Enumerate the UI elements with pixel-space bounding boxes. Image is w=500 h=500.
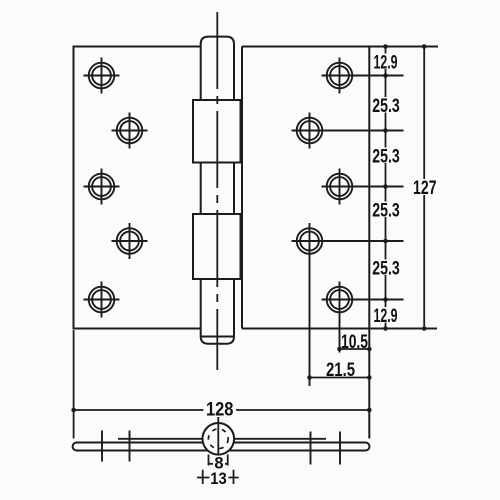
- knuckle K4: [193, 214, 241, 279]
- hole R3: [322, 169, 404, 205]
- 13 dimension line stubs: [197, 477, 239, 479]
- hole R2: [292, 113, 404, 149]
- pin bottom cap arc: [201, 337, 234, 344]
- svg-text:128: 128: [206, 399, 234, 420]
- right leaf right edge: [368, 47, 370, 329]
- bottom view screw position tick R2: [310, 432, 312, 465]
- left leaf outline: [74, 47, 201, 329]
- dimension line for hole pitch (12.9/25.3): [385, 47, 387, 329]
- 21.5 dimension line with dots: [310, 377, 370, 379]
- label 127: [411, 178, 438, 199]
- svg-text:25.3: 25.3: [372, 200, 400, 221]
- bottom view vertical centerline: [217, 417, 219, 455]
- dots on 127 dimension line: [422, 44, 427, 331]
- label 25.3 first: [371, 96, 401, 117]
- dimension dots on hole pitch line: [383, 44, 388, 331]
- hole L2: [112, 113, 148, 149]
- hinge pin left edge segments: [200, 43, 202, 337]
- hole L1: [84, 58, 120, 94]
- hole R5 with extension line down to 10.5 dimension: [322, 282, 404, 353]
- overall height dimension line 127: [423, 47, 425, 329]
- 13 dimension extension bars: [203, 470, 234, 484]
- right leaf bottom edge with dimension extension: [242, 328, 437, 330]
- right leaf right edge extension below: [368, 329, 370, 439]
- hole L3: [84, 169, 120, 205]
- hinge pin right edge segments: [233, 43, 235, 337]
- label 25.3 second: [371, 146, 401, 167]
- hole R1: [322, 58, 404, 94]
- bottom view screw position tick L1: [101, 431, 103, 462]
- bottom view screw position tick R1: [339, 432, 341, 465]
- bottom view: 128 width dimension line: [74, 409, 370, 411]
- svg-text:25.3: 25.3: [372, 146, 400, 167]
- label 128: [204, 399, 237, 420]
- hole R4 with extension line down to 21.5 dimension: [292, 223, 404, 386]
- hole L4: [112, 223, 148, 259]
- svg-text:127: 127: [413, 178, 437, 199]
- svg-text:12.9: 12.9: [374, 306, 398, 327]
- bottom view: rear leaf edge line: [118, 438, 326, 440]
- svg-text:10.5: 10.5: [341, 332, 368, 353]
- label 12.9 bottom: [371, 306, 400, 327]
- bottom view knuckle circle: [203, 423, 235, 455]
- 8 dimension extension bars: [209, 455, 228, 466]
- bottom view screw position tick L2: [129, 431, 131, 462]
- pin bottom chord: [201, 336, 234, 338]
- svg-text:13: 13: [210, 470, 227, 488]
- pin centerline: [216, 12, 218, 370]
- svg-text:21.5: 21.5: [326, 360, 355, 381]
- hole L5: [84, 282, 120, 318]
- 8 dimension line stubs: [209, 463, 228, 465]
- label 25.3 fourth: [371, 258, 401, 279]
- left extension line from leaf corner to bottom view: [73, 330, 75, 439]
- right leaf top edge with dimension extension: [242, 46, 438, 48]
- label 25.3 third: [371, 200, 401, 221]
- svg-text:25.3: 25.3: [372, 96, 400, 117]
- bottom view pin hidden circle: [208, 429, 228, 449]
- pin top cap: [201, 37, 234, 44]
- 10.5 dimension line with dots: [340, 348, 370, 350]
- svg-text:25.3: 25.3: [372, 258, 400, 279]
- label 12.9 top: [371, 52, 400, 73]
- knuckle K2: [193, 100, 241, 163]
- right leaf left edge: [241, 47, 243, 329]
- bottom view: hinge plate bar: [73, 443, 370, 451]
- svg-text:12.9: 12.9: [374, 52, 398, 73]
